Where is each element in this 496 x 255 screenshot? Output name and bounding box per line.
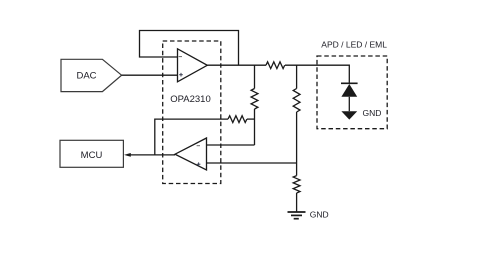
svg-text:GND: GND — [310, 210, 329, 220]
ground symbol — [288, 212, 306, 219]
wire DAC output to U1A non-inverting input — [122, 74, 178, 76]
photodiode D1 — [341, 83, 358, 119]
wire rail to APD box — [285, 65, 349, 83]
resistor R2 (vertical, from rail down to U1B inverting input) — [251, 65, 258, 145]
wire U1B non-inverting input — [207, 162, 297, 164]
op-amp U1B (OPA2310 second half, pointing left) — [175, 138, 207, 170]
DAC block — [61, 59, 122, 91]
svg-text:APD / LED / EML: APD / LED / EML — [321, 40, 387, 50]
svg-text:MCU: MCU — [81, 150, 103, 161]
resistor R1 (series output resistor) — [266, 62, 285, 69]
wire U1A output rail — [207, 64, 266, 66]
svg-text:GND: GND — [363, 108, 382, 118]
resistor R3 (feedback resistor U1B) — [228, 116, 247, 123]
wire U1B output to MCU — [127, 154, 175, 156]
wire R3 to node at R2 — [247, 118, 255, 120]
svg-text:DAC: DAC — [76, 70, 96, 81]
resistor R5 (to ground) — [293, 163, 300, 212]
svg-text:OPA2310: OPA2310 — [170, 94, 211, 105]
MCU block — [60, 140, 123, 167]
feedback tap wire from MCU line — [155, 119, 228, 155]
arrowhead into MCU — [124, 153, 131, 157]
OPA2310 dashed outline — [163, 41, 221, 184]
wire to U1B inverting input — [207, 144, 255, 146]
APD / LED / EML dashed module box — [317, 56, 387, 129]
op-amp U1A (OPA2310 first half) — [178, 49, 208, 82]
feedback wire U1A output to inverting input — [140, 31, 239, 66]
resistor R4 (vertical from rail down to U1B + node) — [293, 65, 300, 163]
